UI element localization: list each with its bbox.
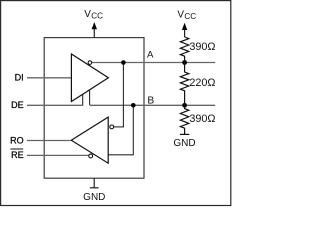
svg-text:DI: DI [15,73,24,83]
svg-text:GND: GND [83,192,105,203]
svg-text:GND: GND [173,138,195,149]
svg-text:390Ω: 390Ω [189,113,215,125]
svg-text:RO: RO [10,135,24,145]
svg-text:A: A [147,50,154,61]
svg-text:CC: CC [91,11,103,20]
svg-text:V: V [177,9,184,20]
svg-text:220Ω: 220Ω [189,77,215,89]
svg-text:B: B [147,95,154,106]
svg-text:DE: DE [11,100,24,110]
svg-text:V: V [84,9,91,20]
svg-text:CC: CC [184,12,196,21]
svg-text:RE: RE [11,150,24,160]
svg-text:390Ω: 390Ω [189,41,215,53]
